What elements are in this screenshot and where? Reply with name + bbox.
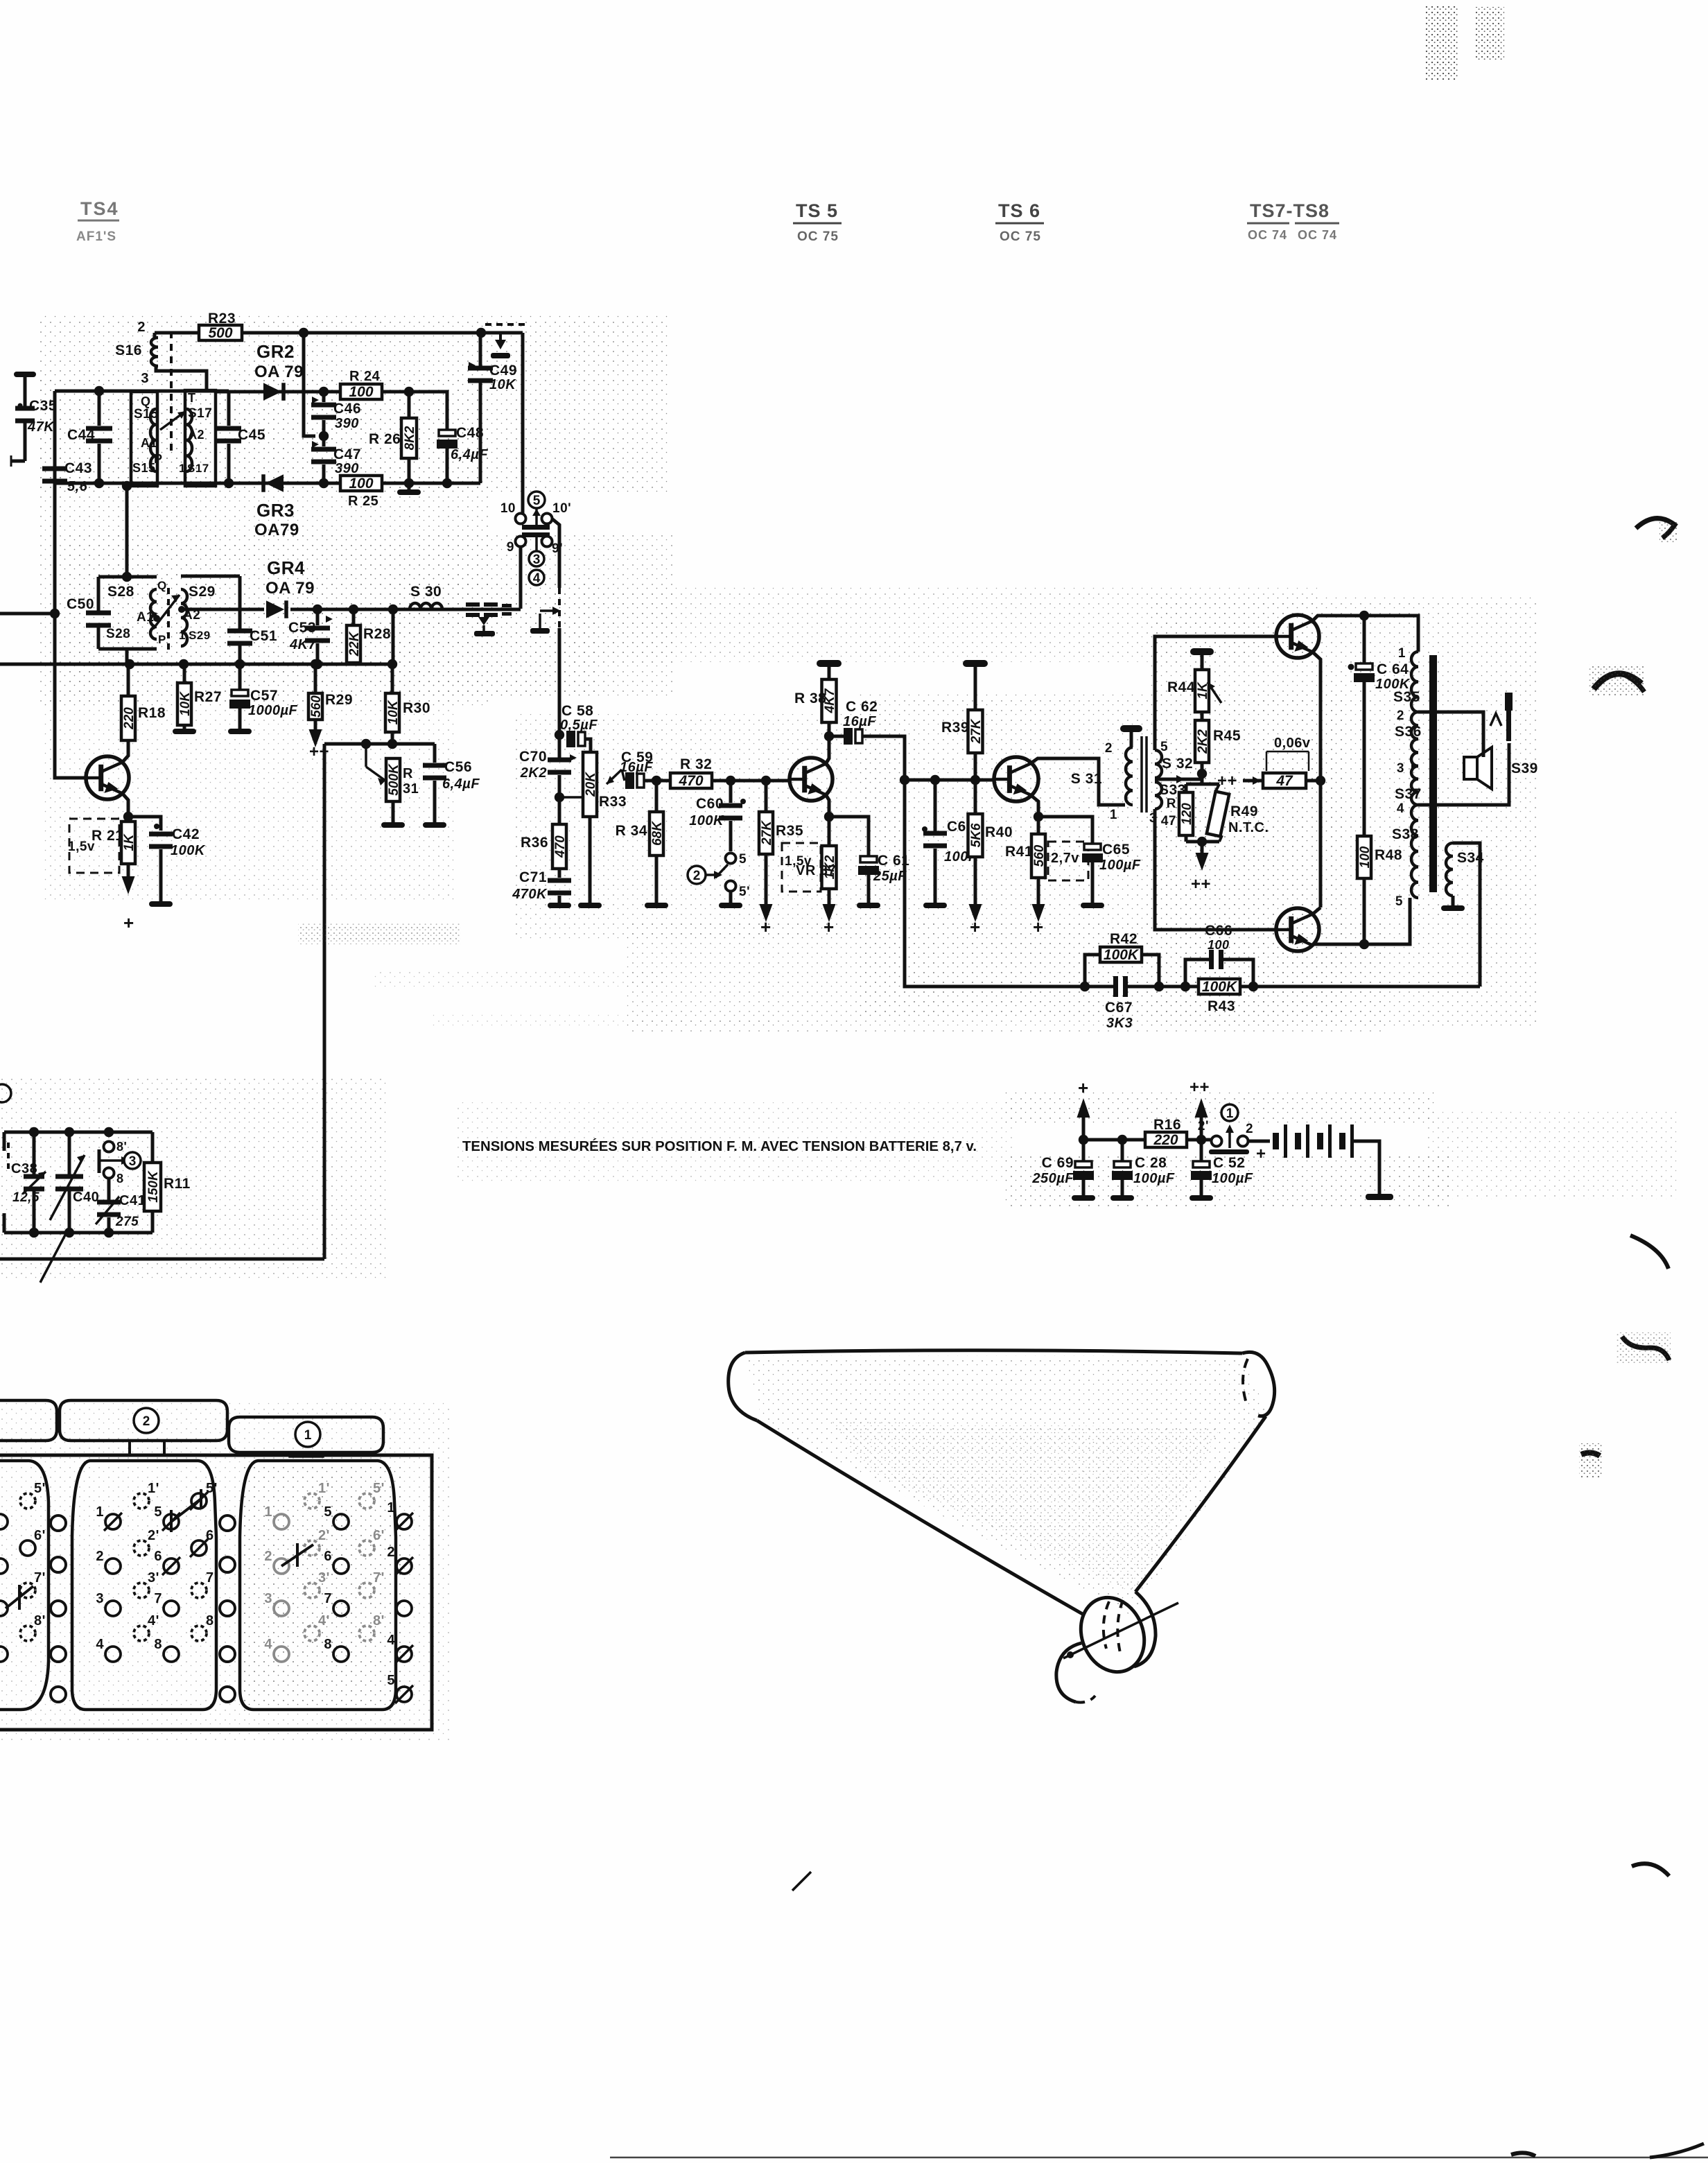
svg-text:2: 2 — [96, 1549, 104, 1564]
wire C70 to R36 — [558, 775, 561, 824]
S15 winding — [150, 409, 156, 471]
svg-text:C48: C48 — [456, 425, 484, 441]
ground below C61 — [867, 901, 871, 903]
scan artifact blob right edge y2100 — [1581, 1452, 1600, 1456]
svg-text:S28: S28 — [106, 627, 130, 641]
svg-text:C46: C46 — [333, 401, 361, 417]
svg-text:5: 5 — [154, 1504, 162, 1520]
wafer B contact column 1'-4' — [134, 1493, 149, 1509]
capacitor C56 — [433, 744, 437, 763]
capacitor C48 electrolytic — [439, 430, 455, 436]
svg-text:5: 5 — [533, 494, 541, 508]
svg-text:1: 1 — [179, 629, 186, 642]
svg-text:22K: 22K — [347, 631, 362, 657]
svg-text:4: 4 — [1397, 801, 1404, 816]
svg-text:A1: A1 — [137, 610, 154, 625]
svg-text:C66: C66 — [1205, 923, 1232, 939]
svg-text:C70: C70 — [519, 749, 547, 765]
svg-text:470: 470 — [678, 773, 703, 789]
svg-text:T: T — [188, 391, 196, 405]
svg-text:R11: R11 — [164, 1176, 191, 1192]
svg-text:5: 5 — [387, 1673, 395, 1688]
scan artifact arc tail y1800 — [1630, 1235, 1668, 1269]
svg-text:OA79: OA79 — [254, 521, 299, 539]
wire A2 tap to GR4 and S30 row — [182, 608, 264, 611]
svg-text:2,7v: 2,7v — [1051, 851, 1079, 866]
transistor TS5 — [790, 758, 833, 801]
svg-text:10K: 10K — [489, 377, 516, 392]
svg-text:27K: 27K — [969, 718, 984, 744]
svg-text:2': 2' — [148, 1528, 159, 1543]
svg-text:100: 100 — [1208, 938, 1230, 952]
resistor R21 — [121, 822, 135, 864]
right contact column on frame — [397, 1514, 412, 1529]
svg-text:S34: S34 — [1457, 850, 1484, 866]
svg-text:S 30: S 30 — [410, 584, 442, 600]
svg-text:0,5µF: 0,5µF — [560, 718, 598, 733]
switch contacts 5/5' below C60 — [729, 821, 733, 851]
svg-text:7: 7 — [324, 1591, 332, 1606]
svg-text:390: 390 — [335, 461, 359, 476]
resistor R30 — [391, 664, 394, 693]
wafer C switch lever 2-2' — [281, 1545, 313, 1566]
svg-text:4: 4 — [264, 1637, 272, 1652]
resistor R35 — [765, 781, 768, 812]
svg-text:1: 1 — [1398, 646, 1406, 661]
svg-text:500K: 500K — [387, 763, 401, 796]
svg-text:C57: C57 — [250, 688, 278, 704]
resistor R18 — [127, 664, 130, 696]
wire detector upper rail (C44/S15/S17 tops) — [55, 390, 229, 393]
diode GR3 OA79 — [265, 474, 284, 492]
wire S16 pin2 stub — [153, 333, 157, 338]
wire TS4 base from left vertical — [55, 614, 86, 778]
svg-text:47: 47 — [1161, 814, 1176, 828]
wire pin2 to speaker — [1418, 712, 1483, 747]
long tuning arrow through C40 — [40, 1227, 69, 1283]
capacitor C50 — [86, 611, 111, 616]
resistor R45 — [1195, 720, 1209, 763]
svg-text:R28: R28 — [363, 626, 391, 642]
resistor R11 — [151, 1132, 155, 1163]
ground below C71 — [558, 901, 561, 905]
svg-text:4: 4 — [96, 1637, 104, 1652]
svg-text:3': 3' — [318, 1570, 330, 1586]
svg-text:R44: R44 — [1167, 679, 1195, 695]
svg-text:6,4µF: 6,4µF — [442, 776, 480, 792]
wire top rail corner down to trimmer pin 10 — [521, 333, 525, 514]
svg-text:R45: R45 — [1213, 728, 1241, 744]
svg-text:OC 75: OC 75 — [797, 229, 839, 244]
scan artifact axis stub bottom middle — [792, 1872, 811, 1891]
svg-text:25µF: 25µF — [873, 869, 907, 884]
svg-text:GR3: GR3 — [256, 500, 295, 521]
svg-text:5: 5 — [1395, 894, 1403, 909]
long bottom wire to tuning gang — [0, 1258, 324, 1261]
svg-text:C50: C50 — [67, 596, 94, 612]
node R28 top — [349, 605, 358, 614]
svg-text:S39: S39 — [1511, 761, 1538, 776]
battery switch contact 2 — [1238, 1136, 1248, 1147]
svg-text:R16: R16 — [1153, 1117, 1181, 1133]
svg-text:5': 5' — [206, 1481, 218, 1496]
R33 wiper arrow — [607, 770, 622, 784]
svg-text:R33: R33 — [599, 794, 627, 810]
sketch hook arc below coil — [1056, 1643, 1081, 1702]
wire TS6 base row — [905, 779, 995, 782]
svg-text:100µF: 100µF — [1133, 1171, 1175, 1186]
scan artifact bottom edge line — [610, 2157, 1708, 2159]
resistor R36 — [552, 824, 566, 869]
resistor R32 — [670, 773, 712, 788]
svg-text:7: 7 — [154, 1591, 162, 1606]
wire TS6 collector to S31 — [1031, 758, 1125, 805]
ground below C42 — [159, 900, 163, 901]
capacitor C60 — [729, 781, 733, 803]
svg-text:560: 560 — [1032, 844, 1047, 867]
wire input rail from left edge to S28 — [0, 612, 55, 616]
svg-text:C 64: C 64 — [1377, 661, 1409, 677]
svg-text:3K3: 3K3 — [1106, 1016, 1133, 1031]
wafer B switch lever 5-5' — [171, 1499, 201, 1522]
capacitor C64 electrolytic — [1348, 664, 1354, 670]
svg-text:R39: R39 — [941, 720, 969, 736]
svg-text:1K: 1K — [122, 833, 137, 851]
svg-text:0,06v: 0,06v — [1274, 736, 1311, 751]
svg-text:100µF: 100µF — [1099, 858, 1141, 873]
svg-text:3: 3 — [264, 1591, 272, 1606]
svg-text:TENSIONS MESURÉES SUR POSI: TENSIONS MESURÉES SUR POSITION F. M. AVE… — [462, 1138, 977, 1154]
NTC resistor R49 slanted — [1207, 792, 1229, 837]
wire pin4 to earphone jack — [1418, 743, 1509, 805]
svg-text:1000µF: 1000µF — [248, 703, 298, 718]
svg-text:16µF: 16µF — [843, 714, 876, 729]
wire battery to ground — [1354, 1141, 1379, 1194]
capacitor C70 — [548, 758, 571, 763]
wire TS5 collector to R38 — [826, 736, 829, 764]
variable capacitor C40 — [68, 1132, 71, 1175]
svg-text:2K2: 2K2 — [1196, 729, 1210, 754]
wire C49 bottom to detector lower rail — [479, 379, 482, 483]
svg-text:OA 79: OA 79 — [265, 579, 315, 598]
potentiometer R31 with wiper arrow — [365, 744, 367, 767]
diode GR4 OA79 — [266, 600, 284, 618]
svg-text:2: 2 — [137, 320, 146, 335]
svg-text:R41: R41 — [1005, 844, 1033, 860]
svg-text:5: 5 — [1160, 740, 1168, 754]
node R26 bottom / ground — [404, 478, 414, 488]
transformer S28 box with C50 in left leg — [98, 575, 157, 579]
trimmer pins 10 10' 9 9' — [516, 514, 526, 524]
resistor VR37 — [822, 846, 837, 889]
svg-text:8: 8 — [324, 1637, 332, 1652]
svg-text:4: 4 — [387, 1633, 395, 1648]
sketch right tube end ellipse — [1242, 1352, 1275, 1416]
svg-text:470: 470 — [553, 835, 568, 858]
svg-text:AF1'S: AF1'S — [76, 229, 116, 244]
svg-text:Q: Q — [157, 579, 167, 592]
svg-text:470K: 470K — [512, 887, 548, 902]
svg-text:N.T.C.: N.T.C. — [1228, 820, 1269, 835]
capacitor C45 — [227, 391, 231, 426]
switch knob tab 1 — [229, 1417, 383, 1452]
svg-text:++: ++ — [1217, 772, 1237, 790]
wire R32 to TS5 base — [712, 779, 790, 783]
resistor R16 — [1145, 1132, 1187, 1147]
svg-text:100: 100 — [349, 384, 373, 400]
resistor R34 — [655, 781, 659, 812]
svg-text:C71: C71 — [519, 869, 547, 885]
capacitor C44 — [98, 391, 101, 426]
svg-text:OC 75: OC 75 — [1000, 229, 1041, 244]
svg-text:R 38: R 38 — [794, 690, 826, 706]
capacitor C66 on raised loop — [1185, 959, 1253, 987]
resistor R28 — [352, 609, 356, 625]
svg-text:1: 1 — [1110, 808, 1117, 822]
svg-text:7': 7' — [206, 1570, 218, 1586]
svg-text:R18: R18 — [138, 705, 166, 721]
svg-text:150K: 150K — [146, 1170, 161, 1203]
svg-text:9': 9' — [552, 541, 563, 556]
svg-text:5: 5 — [739, 852, 747, 867]
wafer C contact column 5'-8' faded — [359, 1493, 374, 1509]
svg-text:OA 79: OA 79 — [254, 363, 304, 381]
svg-text:1: 1 — [1226, 1106, 1234, 1121]
dashes above top rail right of C49 — [485, 323, 527, 326]
transistor TS8 — [1276, 908, 1319, 951]
svg-text:2: 2 — [1397, 709, 1404, 723]
resistor R38 — [822, 679, 837, 722]
node C48 bottom — [442, 478, 452, 488]
output transformer primary winding S35-S38 — [1411, 652, 1418, 712]
svg-text:Q: Q — [141, 394, 151, 408]
svg-text:10: 10 — [500, 501, 516, 516]
svg-text:C56: C56 — [444, 759, 472, 775]
svg-text:C 58: C 58 — [561, 703, 593, 719]
ground below C56 — [433, 818, 437, 822]
wafer C outline — [240, 1461, 396, 1710]
svg-text:4': 4' — [148, 1613, 159, 1628]
supply arrow below R40 — [974, 857, 977, 904]
supply arrow below R35 — [765, 854, 768, 904]
padding trimmer caps on S30 output — [466, 602, 480, 607]
svg-text:6: 6 — [154, 1549, 162, 1564]
node S28 top — [122, 572, 132, 582]
wire S33 bottom to TS8 base — [1155, 809, 1277, 930]
resistor R27 — [183, 664, 186, 683]
svg-text:6': 6' — [373, 1528, 385, 1543]
svg-text:1': 1' — [318, 1481, 330, 1496]
svg-text:+: + — [1033, 917, 1044, 937]
wire pin10' to dashed switch line — [552, 519, 559, 588]
svg-text:C 28: C 28 — [1135, 1155, 1167, 1171]
switch knob tab 2 — [60, 1400, 227, 1441]
wafer C contact column 5-8 — [333, 1514, 349, 1529]
S28 winding — [150, 589, 157, 639]
capacitor C57 electrolytic — [238, 664, 242, 692]
node left vertical joins input rail — [50, 609, 60, 618]
ground below R27 — [183, 725, 186, 729]
chassis arrow-bar symbol below top rail — [499, 333, 502, 340]
svg-text:3': 3' — [148, 1570, 159, 1586]
svg-text:R29: R29 — [325, 692, 353, 708]
svg-text:5,6: 5,6 — [67, 479, 88, 494]
node C53 top — [313, 605, 322, 614]
svg-text:6': 6' — [206, 1528, 218, 1543]
svg-text:R 26: R 26 — [369, 431, 401, 447]
capacitor C41 — [97, 1200, 121, 1205]
S15/S17 tuning arrow — [160, 411, 186, 430]
ground below S34 — [1452, 896, 1455, 905]
svg-text:C42: C42 — [172, 826, 200, 842]
S31 core lines — [1140, 736, 1143, 813]
S17 winding — [186, 409, 192, 471]
sketch coil axis line — [1063, 1603, 1178, 1658]
resistor R29 — [314, 664, 317, 693]
wire emitter to C42 — [128, 817, 161, 831]
capacitor C47 — [322, 436, 326, 446]
supply arrow below R21 — [127, 864, 130, 876]
R44 wiper arrow — [1208, 682, 1221, 703]
svg-text:C60: C60 — [696, 796, 724, 812]
tuning box bottom rail — [4, 1231, 152, 1235]
top-right corner smudge blobs — [1425, 6, 1458, 80]
supply tee above R38 — [817, 660, 842, 667]
svg-text:8': 8' — [373, 1613, 385, 1628]
svg-text:R49: R49 — [1230, 803, 1258, 819]
svg-text:R: R — [1167, 797, 1176, 811]
svg-text:S 32: S 32 — [1162, 756, 1193, 772]
scan artifact arc right edge upper — [1636, 519, 1675, 538]
left edge circled contact — [0, 1084, 11, 1102]
svg-text:4': 4' — [318, 1613, 330, 1628]
svg-text:R40: R40 — [985, 824, 1013, 840]
wire TS5 emitter to C61 — [829, 817, 869, 855]
svg-text:VR 37: VR 37 — [796, 863, 836, 878]
node C46/C47 midpoint — [319, 431, 329, 441]
ground below R26 — [408, 483, 411, 489]
svg-text:390: 390 — [335, 416, 359, 431]
tuning box top rail — [4, 1131, 152, 1134]
node C58 tap — [555, 730, 564, 740]
capacitor C53 — [316, 609, 320, 625]
ground below C63 — [934, 901, 937, 903]
svg-text:1: 1 — [96, 1504, 104, 1520]
svg-text:4K7: 4K7 — [289, 637, 317, 652]
svg-text:3: 3 — [96, 1591, 104, 1606]
svg-text:C 52: C 52 — [1213, 1155, 1245, 1171]
wafer A outline partial — [0, 1461, 49, 1710]
svg-text:+: + — [760, 917, 772, 937]
svg-text:R 32: R 32 — [680, 756, 712, 772]
node R26 top — [404, 387, 414, 397]
svg-text:R23: R23 — [208, 311, 236, 327]
supply arrow below VR37 — [828, 889, 831, 904]
svg-text:1': 1' — [148, 1481, 159, 1496]
svg-text:S28: S28 — [107, 584, 134, 600]
antenna coil dashes at left edge — [7, 1143, 10, 1173]
dashed switch line — [558, 588, 561, 629]
svg-text:2K2: 2K2 — [520, 765, 547, 781]
svg-text:100K: 100K — [1202, 979, 1238, 995]
switch knob tab left partial — [0, 1400, 57, 1441]
svg-text:2: 2 — [264, 1549, 272, 1564]
wire C46/C47 feed from top rail — [304, 333, 315, 436]
svg-text:TS4: TS4 — [80, 198, 119, 219]
capacitor C63 — [922, 826, 927, 832]
svg-text:S16: S16 — [115, 342, 142, 358]
resistor R26 — [401, 418, 417, 458]
capacitor C67 series in bus — [1113, 976, 1118, 997]
wire left vertical C43 column — [53, 391, 57, 664]
svg-text:TS 6: TS 6 — [998, 200, 1040, 221]
svg-text:100K: 100K — [689, 813, 724, 828]
capacitor C28 electrolytic — [1121, 1140, 1124, 1161]
capacitor C61 electrolytic — [860, 856, 877, 862]
wire TS4 emitter down — [122, 793, 128, 817]
svg-text:C 62: C 62 — [846, 699, 878, 715]
sketch left rounded end — [729, 1353, 757, 1421]
svg-text:5K6: 5K6 — [969, 823, 984, 847]
svg-text:R 34: R 34 — [616, 823, 647, 839]
svg-text:C49: C49 — [489, 363, 517, 379]
svg-text:R 25: R 25 — [348, 494, 378, 509]
svg-text:10K: 10K — [178, 691, 193, 716]
potentiometer R44 with tee — [1190, 648, 1214, 655]
svg-text:+: + — [1256, 1145, 1266, 1163]
svg-text:P: P — [158, 633, 166, 646]
wire S15 stage down to S28 box — [125, 486, 129, 577]
svg-text:9: 9 — [507, 540, 514, 555]
svg-text:47K: 47K — [27, 419, 55, 435]
dashed measure box 1,5v at R21 — [69, 819, 119, 873]
transistor TS6 — [994, 757, 1038, 801]
svg-text:68K: 68K — [650, 821, 665, 846]
wire battery rail — [1083, 1138, 1212, 1142]
faint watermark smudge mid-left — [298, 923, 461, 944]
node junction top rail at C49 — [476, 328, 486, 338]
svg-text:560: 560 — [309, 695, 324, 718]
svg-text:S 31: S 31 — [1071, 771, 1102, 787]
capacitor C42 — [154, 824, 159, 829]
svg-text:TS7-TS8: TS7-TS8 — [1250, 200, 1330, 221]
svg-text:3: 3 — [141, 371, 149, 386]
ground under trimmer caps — [478, 617, 489, 625]
transformer core dashed S28/S29 — [167, 588, 170, 650]
resistor R40 — [974, 780, 977, 814]
wire TS5 emitter — [826, 794, 829, 817]
wafer C contact column 1-4 faded — [274, 1514, 289, 1529]
resistor R41 — [1031, 834, 1045, 878]
wire S30 junction down to lower rail — [392, 609, 395, 664]
svg-text:C35: C35 — [29, 398, 57, 414]
wafer B contact column 1-4 — [105, 1514, 121, 1529]
potentiometer R33 — [583, 752, 597, 817]
svg-text:C 69: C 69 — [1042, 1155, 1074, 1171]
capacitor C51 — [227, 629, 252, 634]
svg-text:20K: 20K — [584, 772, 598, 797]
wafer B contact column 5-8 — [164, 1514, 179, 1529]
svg-text:8': 8' — [116, 1140, 127, 1154]
svg-text:++: ++ — [1189, 1078, 1210, 1097]
output transformer core bar — [1429, 655, 1437, 892]
S28/S29 tuning arrow — [153, 595, 180, 629]
svg-text:GR2: GR2 — [256, 341, 295, 362]
svg-text:GR4: GR4 — [267, 557, 305, 578]
wire TS4 collector to R18 — [122, 740, 128, 763]
S29 winding — [181, 589, 187, 646]
circled 3 and 4 below trimmer — [529, 551, 544, 566]
